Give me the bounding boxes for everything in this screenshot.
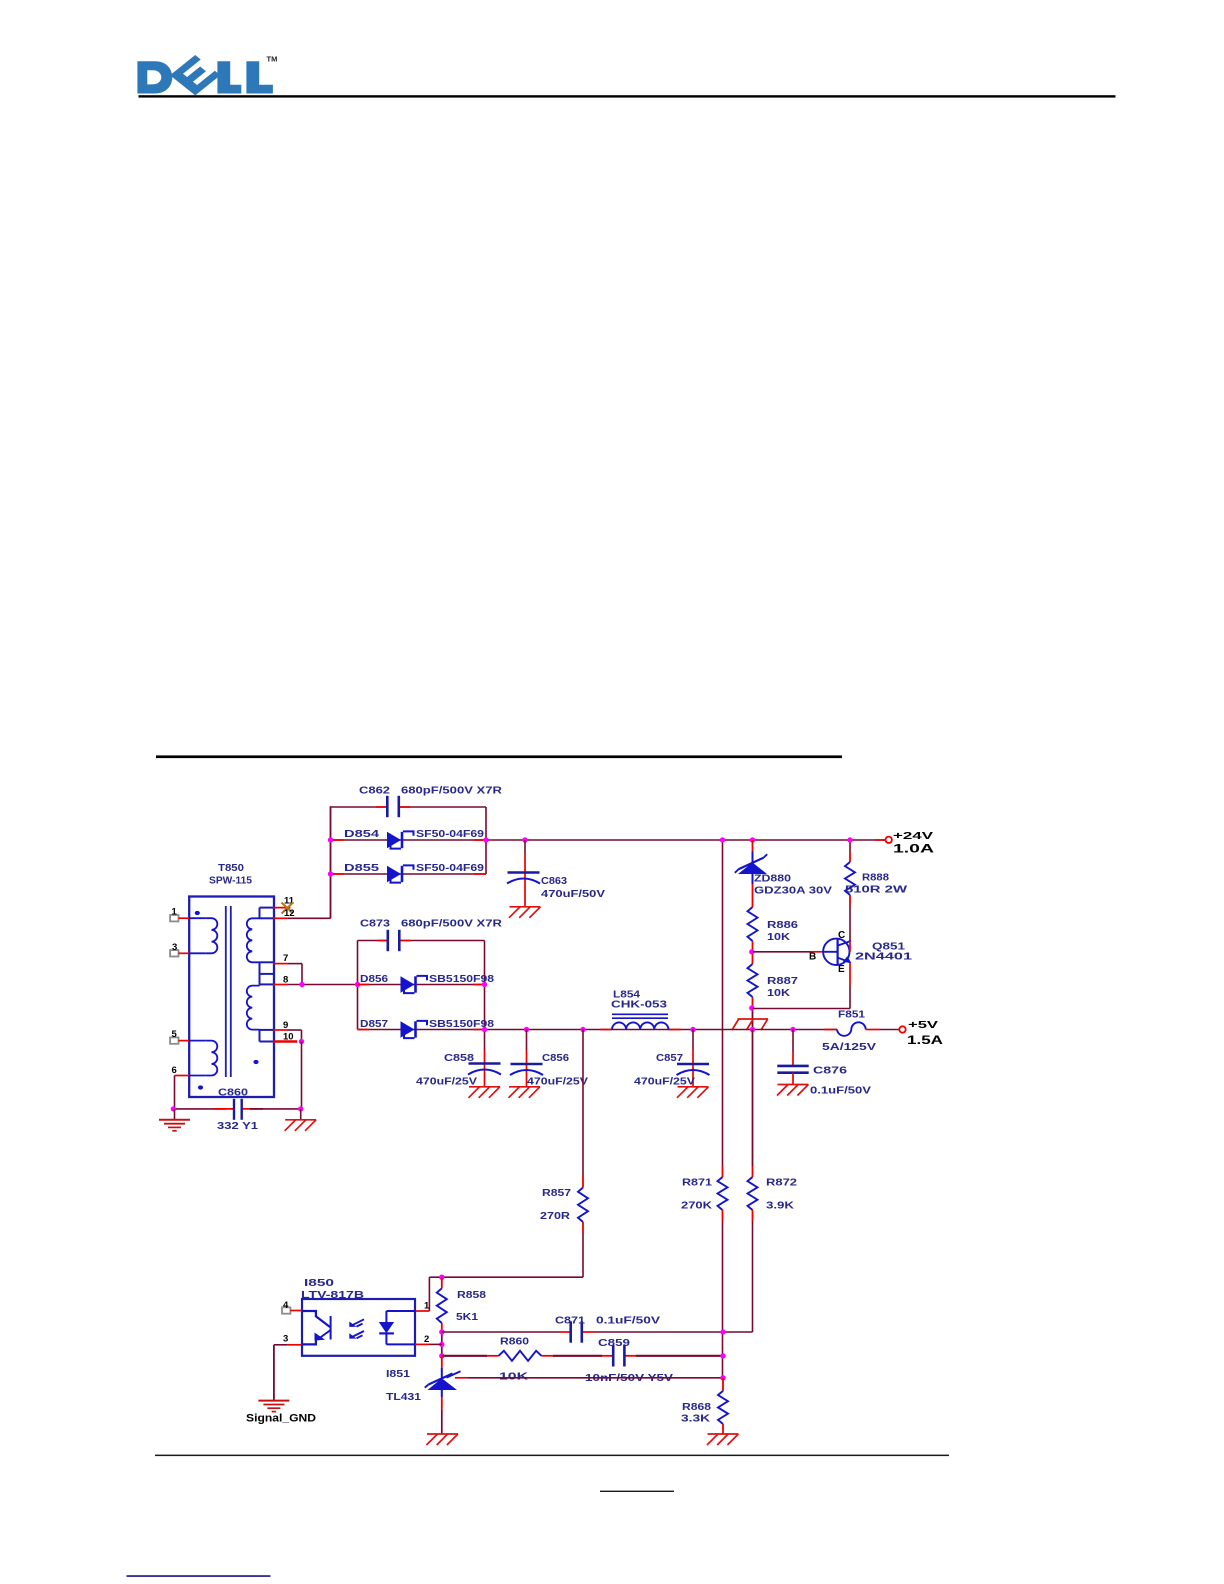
chassis ground (R868) (707, 1434, 739, 1445)
opto phototransistor (303, 1311, 331, 1344)
footer small rule (600, 1491, 674, 1492)
junction R888 tap (847, 837, 852, 842)
svg-text:TM: TM (267, 55, 278, 64)
optocoupler I850 body (302, 1299, 415, 1356)
svg-text:ZD880: ZD880 (754, 873, 791, 885)
svg-text:I850: I850 (304, 1277, 334, 1289)
junction ground left (171, 1106, 176, 1111)
transformer secondary winding 8-9/10 (247, 984, 273, 1041)
svg-text:E: E (838, 964, 845, 975)
svg-text:5K1: 5K1 (456, 1311, 478, 1323)
pin 11 stub with no-connect X (273, 903, 293, 914)
schematic top border line (156, 755, 842, 758)
chassis ground (C857) (677, 1087, 709, 1098)
capacitor C856 (510, 1030, 543, 1087)
svg-text:0.1uF/50V: 0.1uF/50V (596, 1315, 660, 1327)
svg-text:1.5A: 1.5A (907, 1033, 943, 1047)
capacitor C873 (388, 930, 400, 951)
svg-text:F851: F851 (838, 1009, 865, 1021)
chassis ground (C858) (469, 1087, 501, 1098)
chassis ground (under transformer) (285, 1109, 317, 1131)
footer blue rule (127, 1575, 271, 1577)
svg-text:3.9K: 3.9K (766, 1200, 795, 1212)
wire TL431 ref line (455, 1377, 723, 1379)
junction R858 top (439, 1275, 444, 1280)
earth ground (left) (159, 1109, 190, 1131)
wire R872 branch from +5V (752, 1030, 754, 1178)
transformer primary winding 5-6 (189, 1041, 217, 1076)
capacitor C863 (507, 840, 540, 907)
diode D854 (387, 831, 414, 848)
svg-text:D854: D854 (344, 828, 379, 840)
svg-text:TL431: TL431 (386, 1391, 421, 1403)
junction C876 tap (790, 1027, 795, 1032)
transformer phase dot (pin 9 winding) (253, 1060, 258, 1064)
svg-text:C857: C857 (656, 1052, 683, 1064)
junction R872 top (750, 1027, 755, 1032)
svg-text:C858: C858 (444, 1052, 474, 1064)
resistor R872 (748, 1177, 758, 1210)
svg-text:R860: R860 (500, 1336, 529, 1348)
transformer phase dot (pin 5 winding) (198, 1085, 203, 1089)
Dell logo (137, 55, 273, 95)
chassis ground (TL431) (427, 1434, 459, 1445)
wire R872 bottom to C871 line (723, 1210, 753, 1332)
pin 1 connector (170, 915, 189, 921)
svg-text:B: B (809, 952, 816, 963)
wire D854 output rail +24V (331, 839, 886, 841)
svg-text:5: 5 (172, 1029, 178, 1040)
svg-text:470uF/50V: 470uF/50V (541, 888, 605, 900)
chassis ground (C876) (777, 1085, 809, 1096)
svg-text:0.1uF/50V: 0.1uF/50V (810, 1085, 871, 1097)
wire opto output node vertical (441, 1332, 443, 1356)
wire R860-C859 line (442, 1355, 723, 1357)
resistor R886 (748, 907, 758, 941)
junction TL431 cathode node (439, 1353, 444, 1358)
diode D856 (401, 976, 428, 993)
svg-text:680pF/500V X7R: 680pF/500V X7R (401, 785, 503, 797)
pin 5 connector (170, 1037, 189, 1043)
svg-text:T850: T850 (218, 862, 244, 874)
svg-text:C873: C873 (360, 918, 390, 930)
svg-text:7: 7 (283, 953, 288, 964)
junction Q851 base node (749, 949, 754, 954)
svg-text:GDZ30A 30V: GDZ30A 30V (754, 885, 832, 897)
wire fuse to +5V terminal (866, 1029, 900, 1031)
svg-text:R872: R872 (766, 1177, 797, 1189)
svg-text:+5V: +5V (908, 1019, 938, 1031)
zener diode ZD880 (735, 840, 767, 907)
capacitor C859 (613, 1345, 624, 1366)
wire Q851 base (753, 951, 824, 953)
wire C871 line (442, 1331, 723, 1333)
junction pins 7/8 (299, 982, 304, 987)
pin 10 stub (273, 1040, 297, 1042)
svg-text:C863: C863 (541, 875, 567, 887)
resistor R888 (845, 840, 855, 941)
svg-text:680pF/500V X7R: 680pF/500V X7R (401, 918, 503, 930)
svg-text:3: 3 (172, 942, 177, 953)
junction R871 top on +24V rail (720, 837, 725, 842)
svg-text:2N4401: 2N4401 (855, 951, 912, 963)
svg-text:C859: C859 (598, 1337, 630, 1349)
fuse F851 (837, 1022, 866, 1036)
svg-text:3: 3 (283, 1334, 288, 1345)
svg-text:C856: C856 (542, 1052, 569, 1064)
inductor L854 (612, 1014, 668, 1029)
pin 12 wire to rectifier loop (273, 806, 331, 918)
opto pin 3 wire (274, 1345, 302, 1401)
svg-text:R871: R871 (682, 1177, 712, 1189)
opto pin 4 connector (282, 1307, 302, 1313)
svg-text:LTV-817B: LTV-817B (301, 1289, 365, 1301)
capacitor C857 (677, 1030, 710, 1087)
earth ground Signal_GND (258, 1401, 289, 1412)
wire R871 bottom (722, 1210, 724, 1378)
svg-text:C: C (838, 930, 845, 941)
junction C871 left (439, 1329, 444, 1334)
svg-text:SF50-04F69: SF50-04F69 (416, 862, 484, 874)
header rule (139, 95, 1116, 97)
svg-text:R858: R858 (457, 1289, 486, 1301)
svg-text:10K: 10K (767, 931, 790, 943)
svg-text:6: 6 (172, 1065, 177, 1076)
svg-text:1: 1 (172, 907, 178, 918)
junction pin2 node (439, 1342, 444, 1347)
svg-text:D856: D856 (360, 973, 388, 985)
diode D855 (387, 865, 414, 882)
transformer secondary winding 11/12-7 (247, 908, 273, 985)
wire pin 9/10 down to secondary return (301, 1042, 303, 1109)
svg-text:3.3K: 3.3K (681, 1413, 711, 1425)
svg-text:C871: C871 (555, 1315, 585, 1327)
junction C871 right (720, 1329, 725, 1334)
chassis ground (C863) (509, 907, 541, 918)
svg-text:270R: 270R (540, 1210, 570, 1222)
pin 8 wire (273, 984, 358, 986)
resistor R871 (718, 1177, 728, 1210)
wire R886-R887 node (752, 941, 754, 964)
schematic bottom border line (155, 1455, 949, 1457)
wire R871 branch from +24V (722, 840, 724, 1177)
svg-text:C862: C862 (359, 785, 390, 797)
svg-text:CHK-053: CHK-053 (611, 999, 667, 1011)
terminal +5V (899, 1026, 905, 1032)
svg-text:R887: R887 (767, 975, 798, 987)
transformer primary winding 1-3 (189, 918, 217, 953)
svg-text:470uF/25V: 470uF/25V (416, 1076, 477, 1088)
svg-text:+24V: +24V (893, 830, 933, 842)
capacitor C862 (387, 796, 399, 817)
Q851 collector wire (849, 941, 851, 952)
junction D854 cathode rail (483, 837, 488, 842)
chassis ground (C856) (509, 1087, 541, 1098)
wire C873 loop right vertical (484, 941, 486, 1051)
transistor Q851 (823, 939, 851, 965)
wire emitter return (753, 1008, 851, 1010)
wire C873 loop top (358, 940, 485, 942)
pin 6 wire to ground node (175, 1076, 190, 1109)
wire C873 loop left vertical (357, 941, 359, 1030)
pin 3 connector (170, 950, 189, 956)
wire D855 branch (331, 873, 487, 875)
svg-text:332 Y1: 332 Y1 (217, 1120, 258, 1132)
wire D856 branch (358, 984, 485, 986)
pin 9 wire (273, 1030, 302, 1042)
junction D856 cathode (482, 982, 487, 987)
svg-text:10K: 10K (767, 987, 790, 999)
junction D854 anode (328, 837, 333, 842)
wire R887 bottom (752, 997, 754, 1030)
secondary return wire with C860 (175, 1108, 302, 1110)
svg-text:SPW-115: SPW-115 (209, 875, 252, 887)
capacitor C860 (234, 1099, 242, 1120)
junction C863 tap (522, 837, 527, 842)
junction D857 cathode (482, 1027, 487, 1032)
pin 7 wire (273, 964, 302, 985)
svg-text:12: 12 (284, 908, 295, 919)
wire loop right vertical (485, 807, 487, 874)
svg-text:510R 2W: 510R 2W (845, 884, 907, 896)
resistor R858 (437, 1277, 447, 1332)
terminal +24V (886, 837, 892, 843)
opto light arrows (349, 1319, 364, 1338)
chassis ground (on +5V rail) (732, 1019, 768, 1030)
svg-text:2: 2 (424, 1334, 429, 1345)
svg-text:470uF/25V: 470uF/25V (527, 1076, 588, 1088)
svg-text:10K: 10K (499, 1371, 529, 1383)
svg-text:SF50-04F69: SF50-04F69 (416, 828, 484, 840)
svg-text:R886: R886 (767, 919, 798, 931)
junction R857 tap (580, 1027, 585, 1032)
resistor R887 (748, 964, 758, 997)
junction D856 anode (355, 982, 360, 987)
junction pins 9/10 (299, 1039, 304, 1044)
wire D857 +5V rail (358, 1029, 838, 1031)
svg-text:470uF/25V: 470uF/25V (634, 1076, 695, 1088)
svg-text:270K: 270K (681, 1200, 713, 1212)
junction ground right (298, 1106, 303, 1111)
wire R857 bottom to opto (415, 1222, 583, 1311)
diode D857 (401, 1021, 428, 1038)
junction C856 tap (524, 1027, 529, 1032)
svg-text:C876: C876 (813, 1065, 847, 1077)
opto LED (379, 1311, 415, 1344)
svg-text:D857: D857 (360, 1018, 388, 1030)
Q851 emitter wire (849, 963, 851, 1009)
junction R887/Q851 emitter node (749, 1005, 754, 1010)
junction ref/R868 node (720, 1375, 725, 1380)
svg-text:4: 4 (283, 1300, 289, 1311)
svg-text:1: 1 (424, 1301, 430, 1312)
junction C857 tap (690, 1027, 695, 1032)
opto pin 2 stub (415, 1343, 442, 1345)
transformer phase dot (pin 1 winding) (195, 911, 200, 915)
junction C859 right (720, 1353, 725, 1358)
wire loop left vertical (330, 807, 332, 918)
shunt regulator I851 TL431 (425, 1356, 461, 1434)
svg-text:R888: R888 (862, 872, 889, 884)
svg-text:1.0A: 1.0A (893, 842, 935, 856)
svg-text:Signal_GND: Signal_GND (246, 1413, 316, 1425)
transformer T850 SPW-115 body (189, 897, 274, 1098)
svg-text:R857: R857 (542, 1187, 571, 1199)
svg-text:C860: C860 (218, 1087, 248, 1099)
resistor R857 (578, 1188, 588, 1223)
wire C862 loop top (331, 806, 487, 808)
capacitor C876 (777, 1030, 808, 1085)
capacitor C871 (571, 1321, 582, 1342)
svg-text:I851: I851 (386, 1368, 410, 1380)
wire R857 branch (582, 1030, 584, 1188)
svg-text:D855: D855 (344, 862, 379, 874)
junction D855 anode (328, 871, 333, 876)
resistor R868 (718, 1378, 728, 1434)
capacitor C858 (468, 1050, 501, 1087)
svg-text:5A/125V: 5A/125V (822, 1041, 876, 1053)
junction ZD880 tap (750, 837, 755, 842)
svg-text:R868: R868 (682, 1401, 711, 1413)
resistor R860 (499, 1351, 542, 1361)
